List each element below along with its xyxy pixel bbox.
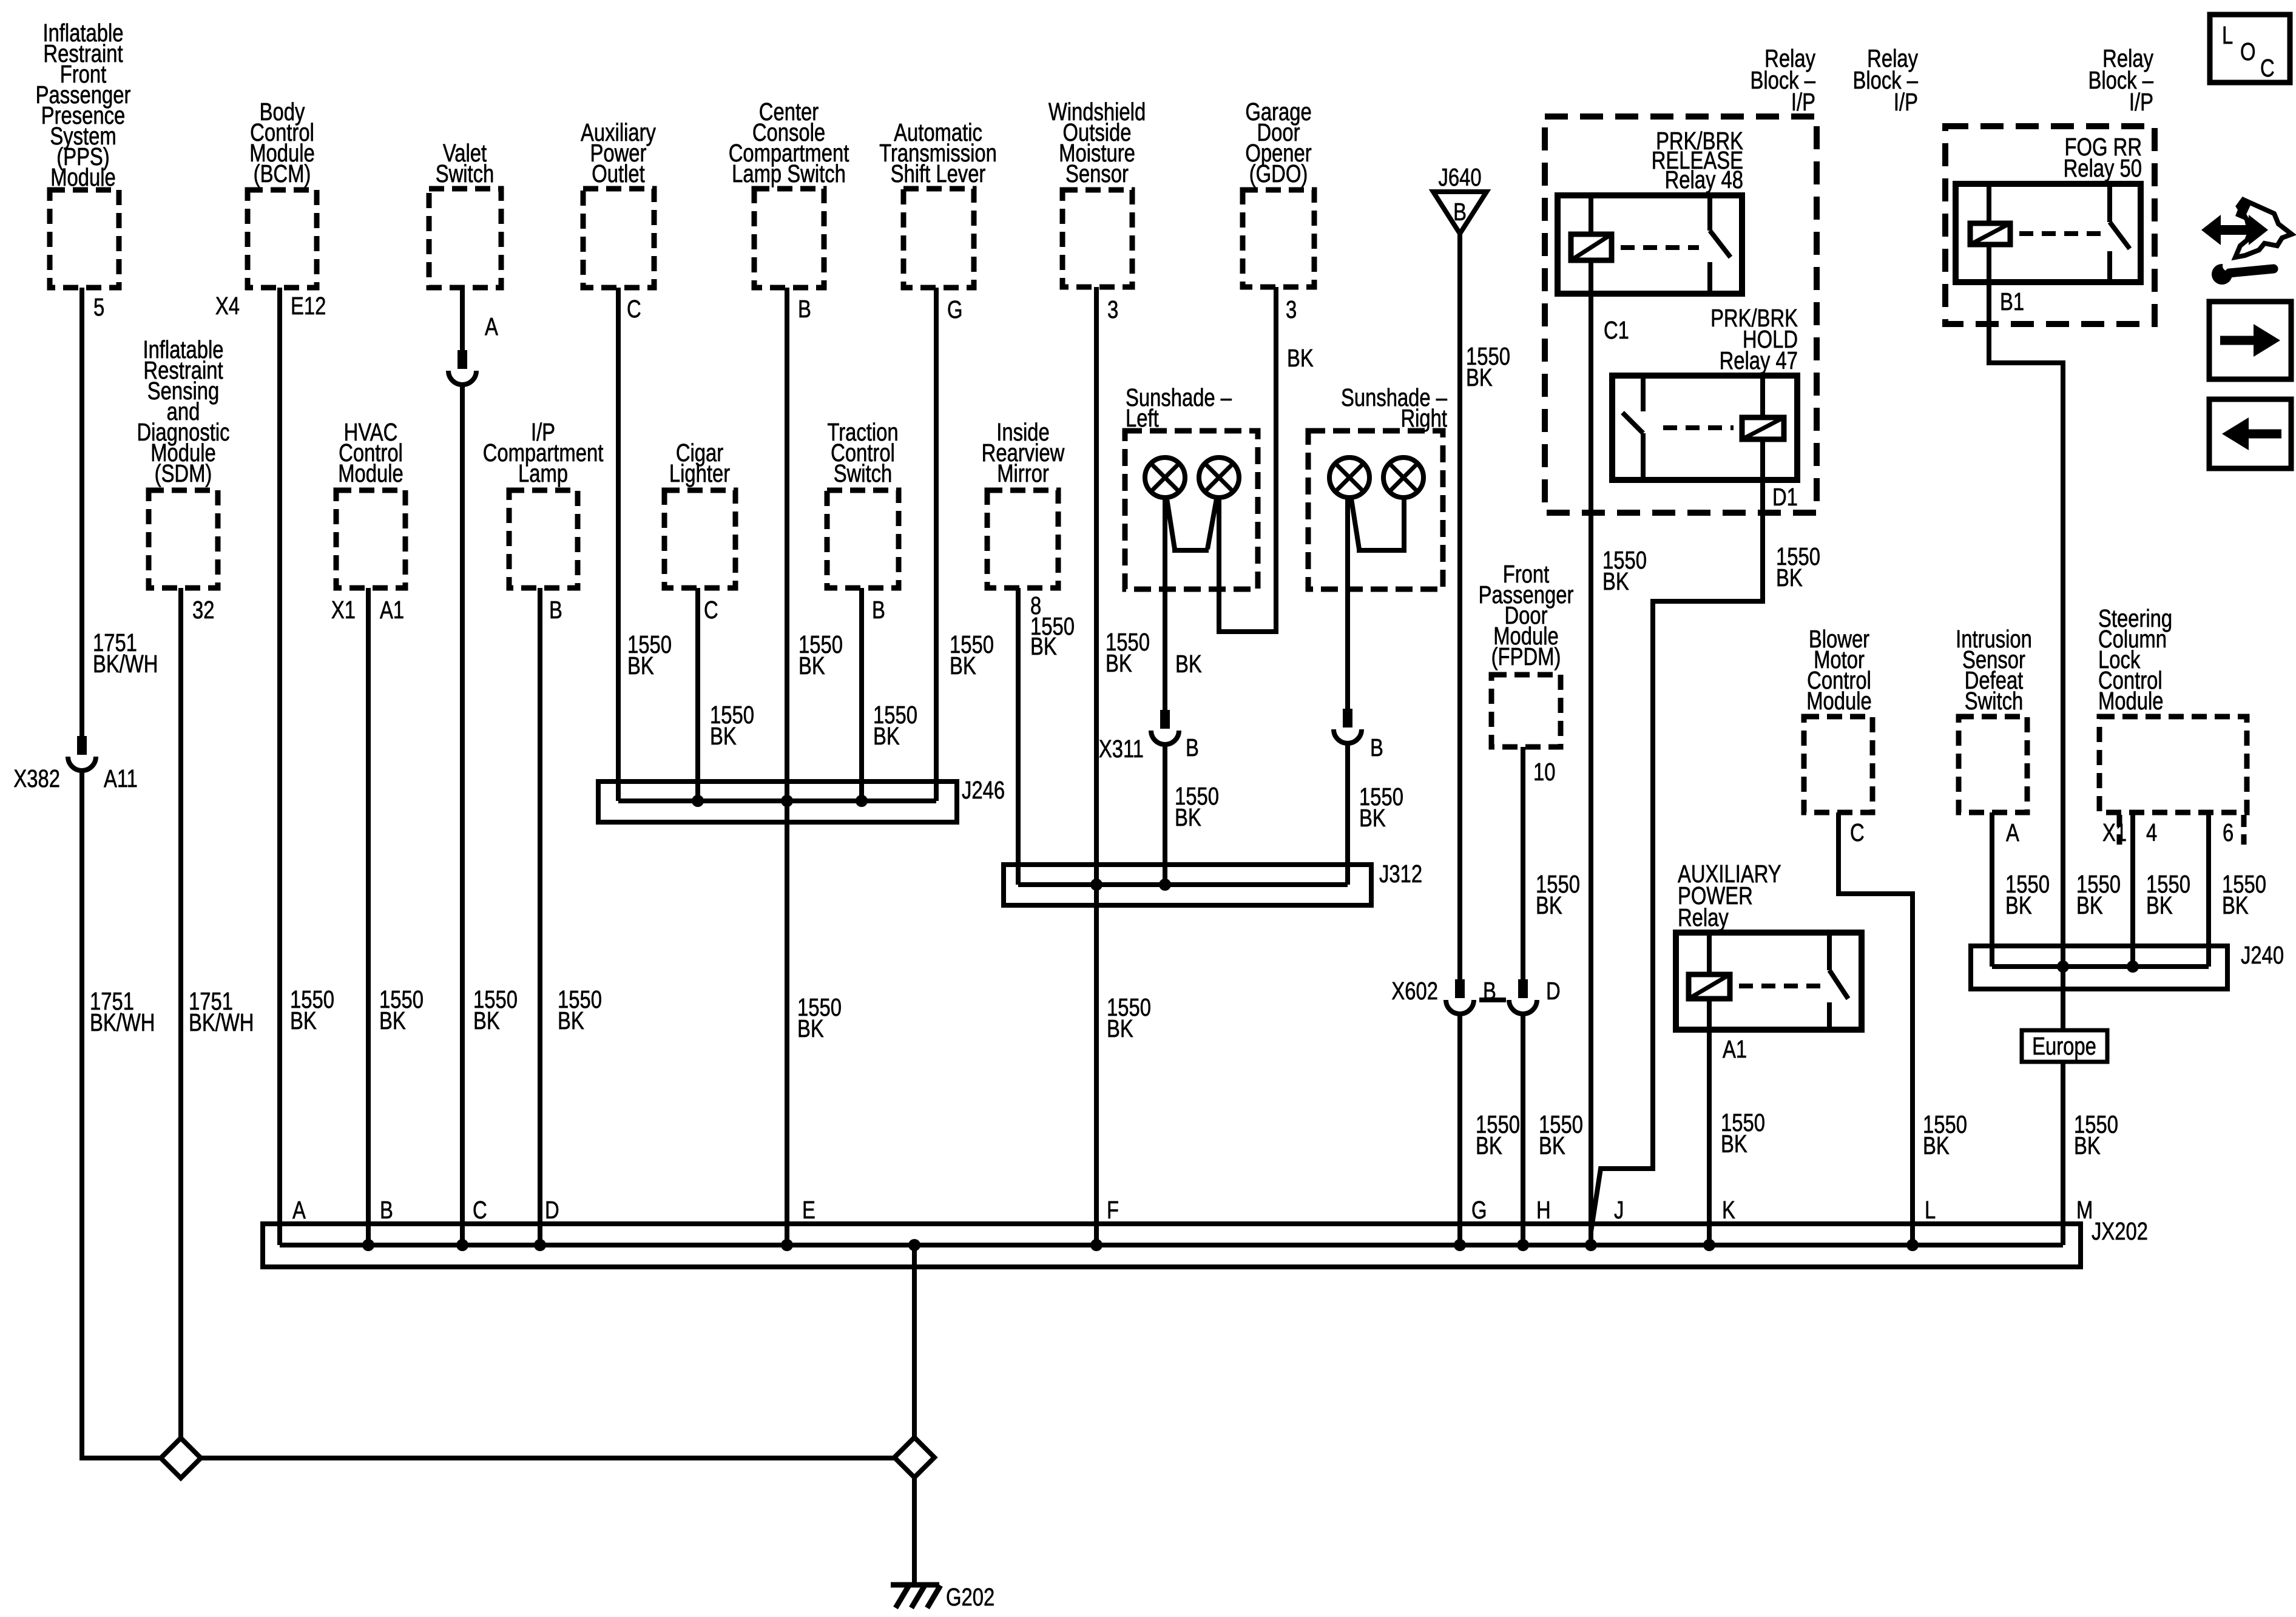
svg-text:3: 3 <box>1286 295 1297 323</box>
component Cigar Lighter (dashed box) <box>664 490 735 588</box>
pin label A11 (X382) <box>104 764 138 792</box>
wire PPS pin 5 down to X382 <box>79 288 84 736</box>
svg-text:BK: BK <box>1539 1131 1565 1159</box>
svg-text:Switch: Switch <box>834 459 893 487</box>
pin label A (Valet Switch) <box>485 312 498 340</box>
connector X602 mating dash link <box>1479 998 1506 1002</box>
svg-text:BK: BK <box>1923 1131 1950 1159</box>
svg-text:3: 3 <box>1107 295 1118 323</box>
svg-text:BK: BK <box>2076 891 2103 919</box>
pin label H (JX202) <box>1536 1195 1551 1223</box>
svg-text:X311: X311 <box>1099 734 1144 762</box>
pin label A1 (AUXILIARY POWER Relay) <box>1723 1035 1747 1062</box>
wire J640 B down to X602 B <box>1457 234 1462 979</box>
icon back arrow box <box>2209 399 2291 468</box>
pin label B (X311 left) <box>1186 733 1199 761</box>
wire label 1550 BK (valet wire) <box>473 985 518 1034</box>
splice diamond (SDM junction) <box>161 1438 201 1478</box>
wire Center Console Lamp Switch B down through J246 to JX202 pin E <box>785 288 789 1245</box>
svg-text:D1: D1 <box>1772 482 1798 510</box>
wire X602 B down to JX202 pin G <box>1457 1013 1462 1245</box>
relay AUXILIARY POWER Relay label <box>1678 859 1781 931</box>
wire Blower Motor C jog to JX202 pin L <box>1838 812 1913 1245</box>
wire label 1550 BK (windshield wire upper) <box>1106 627 1150 677</box>
option box Europe <box>2022 1030 2107 1062</box>
svg-text:BK: BK <box>1287 343 1314 371</box>
wire label 1550 BK (center console wire upper) <box>799 630 843 679</box>
component Inside Rearview Mirror label <box>982 417 1065 487</box>
wire label 1550 BK (below X311 right) <box>1359 782 1403 831</box>
lamp L1 (Sunshade Right) <box>1329 457 1369 498</box>
svg-text:J240: J240 <box>2241 940 2284 968</box>
svg-text:BK: BK <box>1476 1131 1502 1159</box>
wire label 1751 BK/WH (PPS lower) <box>90 987 155 1036</box>
wire relay 48 C1 down to JX202 pin J <box>1589 294 1593 1245</box>
svg-text:K: K <box>1722 1195 1735 1223</box>
component Valet Switch (dashed box) <box>429 189 501 288</box>
svg-text:I/P: I/P <box>2129 87 2153 115</box>
wire label 1550 BK (intrusion wire) <box>2005 869 2050 919</box>
pin label D (JX202) <box>545 1195 559 1223</box>
svg-text:BK/WH: BK/WH <box>90 1008 155 1036</box>
wire X311 left down to J312 <box>1163 744 1167 885</box>
svg-text:X382: X382 <box>13 764 60 792</box>
svg-text:Sensor: Sensor <box>1065 159 1129 187</box>
wire label BK (GDO wire) <box>1287 343 1314 371</box>
relay block I/P label 1 <box>1750 44 1815 115</box>
svg-text:5: 5 <box>93 292 104 320</box>
pin label C1 (relay 48) <box>1604 316 1629 343</box>
component Windshield Outside Moisture Sensor label <box>1048 97 1146 187</box>
wire Steering Column Lock pin 4 down to J240 <box>2130 812 2135 967</box>
svg-text:Relay: Relay <box>1678 903 1729 931</box>
pin label A (JX202) <box>292 1195 306 1223</box>
svg-text:6: 6 <box>2223 818 2234 846</box>
svg-text:Relay 50: Relay 50 <box>2064 154 2142 181</box>
node J640 label <box>1438 163 1481 191</box>
lamp L2 (Sunshade Right) <box>1383 457 1423 498</box>
component GDO (dashed box) <box>1243 190 1314 287</box>
junction label J240 <box>2241 940 2284 968</box>
component Intrusion Sensor Defeat Switch (dashed box) <box>1959 717 2027 812</box>
component Sunshade Left (dashed box) <box>1125 431 1258 589</box>
component Steering Column Lock Control Module (dashed box) <box>2099 717 2247 845</box>
pin label 32 (SDM) <box>192 595 214 623</box>
pin label B (X602) <box>1483 976 1496 1004</box>
svg-text:G: G <box>947 295 963 323</box>
wire label 1550 BK (D1 wire) <box>1776 542 1820 591</box>
svg-text:BK: BK <box>1602 567 1629 595</box>
pin label 10 (FPDM) <box>1533 757 1555 785</box>
junction label J312 <box>1379 859 1422 887</box>
svg-text:F: F <box>1107 1195 1119 1223</box>
pin label C (Auxiliary Power Outlet) <box>627 294 641 322</box>
svg-text:Module: Module <box>338 459 403 487</box>
wire splice line to diamond splices <box>201 1456 894 1460</box>
connector label X382 <box>13 764 60 792</box>
wire label 1550 BK (center console wire lower) <box>797 993 842 1042</box>
svg-text:BK: BK <box>1359 803 1386 831</box>
wire Windshield Moisture Sensor 3 down through J312 to JX202 pin F <box>1094 287 1099 1245</box>
svg-text:JX202: JX202 <box>2092 1217 2148 1244</box>
wire label 1550 BK (aux outlet wire) <box>627 630 672 679</box>
relay U50 FOG RR Relay 50 <box>1956 184 2141 282</box>
wire label 1550 BK (I/P lamp wire) <box>558 985 602 1034</box>
svg-text:BK: BK <box>1721 1129 1747 1157</box>
wire label 1550 BK (M wire) <box>2074 1110 2118 1159</box>
svg-text:A: A <box>2006 818 2019 846</box>
svg-text:X4: X4 <box>215 291 240 319</box>
svg-text:J640: J640 <box>1438 163 1481 191</box>
svg-text:BK: BK <box>2146 891 2173 919</box>
component Intrusion Sensor Defeat Switch label <box>1956 624 2032 714</box>
component Center Console Compartment Lamp Switch label <box>729 97 849 187</box>
wire label 1550 BK (HVAC wire) <box>379 985 424 1034</box>
pin label B (X311 right) <box>1370 733 1383 761</box>
pin label B (Traction Control Switch) <box>872 595 885 623</box>
pin label X1 (Steering Column Lock Control Module) <box>2102 818 2127 846</box>
wire label 1550 BK (cigar lighter wire) <box>710 700 754 749</box>
component Traction Control Switch (dashed box) <box>827 490 899 588</box>
pin label X1 (HVAC) <box>331 595 356 623</box>
svg-text:C1: C1 <box>1604 316 1629 343</box>
wire Automatic Transmission Shift Lever G down to J246 <box>934 288 939 801</box>
pin label B (JX202) <box>380 1195 393 1223</box>
svg-text:B: B <box>549 595 562 623</box>
svg-text:X602: X602 <box>1391 976 1438 1004</box>
wire X311 right down to J312 <box>1345 743 1350 885</box>
svg-text:(GDO): (GDO) <box>1249 159 1308 187</box>
connector X382 inline <box>68 736 96 771</box>
wire Intrusion Sensor A down to J240 <box>1990 812 1994 967</box>
svg-text:Lamp: Lamp <box>518 459 568 487</box>
relay U48 PRK/BRK RELEASE Relay 48 <box>1558 195 1742 294</box>
component I/P Compartment Lamp (dashed box) <box>509 490 578 588</box>
svg-text:BK: BK <box>2074 1131 2101 1159</box>
wire label 1550 BK (mirror wire) <box>1030 612 1075 660</box>
svg-text:BK: BK <box>290 1006 317 1034</box>
pin label 5 (PPS) <box>93 292 104 320</box>
svg-text:D: D <box>545 1195 559 1223</box>
wire Sunshade Left lamp2 to GDO wire jog <box>1219 499 1276 632</box>
wire Sunshade Right lamp1 down to X311 right <box>1345 498 1350 709</box>
svg-text:32: 32 <box>192 595 214 623</box>
component Center Console Compartment Lamp Switch (dashed box) <box>754 189 824 288</box>
wire Inside Rearview Mirror 8 down to J312 <box>1016 588 1021 885</box>
svg-text:J312: J312 <box>1379 859 1422 887</box>
svg-text:B: B <box>1186 733 1199 761</box>
component SDM (dashed box) <box>149 490 218 588</box>
junction bus J246 <box>598 781 957 822</box>
svg-text:(SDM): (SDM) <box>155 459 212 487</box>
pin label J (JX202) <box>1614 1195 1624 1223</box>
relay 48 PRK/BRK RELEASE label <box>1652 126 1743 193</box>
component PPS Module (dashed box) <box>50 190 119 288</box>
wire label 1550 BK (FPDM wire upper) <box>1536 869 1580 919</box>
pin label G (Automatic Transmission Shift Lever) <box>947 295 963 323</box>
wire internal Sunshade Right lamp bar <box>1351 499 1405 553</box>
svg-text:A1: A1 <box>1723 1035 1747 1062</box>
pin label B (I/P Compartment Lamp) <box>549 595 562 623</box>
component Automatic Transmission Shift Lever label <box>879 118 997 187</box>
pin label D1 (relay 47) <box>1772 482 1798 510</box>
component Garage Door Opener label <box>1245 97 1311 187</box>
connector label X602 <box>1391 976 1438 1004</box>
pin label 4 (Steering Column Lock Control Module) <box>2146 818 2157 846</box>
component FPDM (dashed box) <box>1491 675 1561 747</box>
svg-text:(FPDM): (FPDM) <box>1491 642 1561 670</box>
splice diamond (ground junction) <box>894 1437 934 1477</box>
svg-text:B1: B1 <box>2000 287 2024 315</box>
wire HVAC A1 down to JX202 pin B <box>366 588 371 1245</box>
svg-text:BK: BK <box>2005 891 2032 919</box>
svg-text:X1: X1 <box>2102 818 2127 846</box>
pin label 8 (Inside Rearview Mirror) <box>1030 591 1041 619</box>
svg-text:Switch: Switch <box>1965 686 2024 714</box>
wire Valet connector down to JX202 pin C <box>460 385 465 1245</box>
wire X602 D down to JX202 pin H <box>1521 1013 1525 1245</box>
svg-text:BK: BK <box>1175 649 1202 677</box>
wire label 1550 BK (K wire) <box>1721 1108 1765 1157</box>
junction bus J312 <box>1004 865 1371 905</box>
svg-text:X1: X1 <box>331 595 356 623</box>
pin label M (JX202) <box>2076 1195 2093 1223</box>
wire GDO pin 3 down to sunshade jog <box>1274 287 1278 634</box>
component Sunshade Right label <box>1341 383 1448 431</box>
wire label BK (sunshade left wire) <box>1175 649 1202 677</box>
wire label 1550 BK (H wire) <box>1539 1110 1583 1159</box>
svg-text:C: C <box>704 595 718 623</box>
svg-text:BK: BK <box>873 721 900 749</box>
svg-text:L: L <box>2222 21 2233 49</box>
component Cigar Lighter label <box>669 438 730 487</box>
wire label 1550 BK (steering pin 4 wire) <box>2146 869 2190 919</box>
svg-text:10: 10 <box>1533 757 1555 785</box>
svg-text:(BCM): (BCM) <box>254 159 311 187</box>
svg-text:Right: Right <box>1400 403 1447 431</box>
svg-text:C: C <box>1850 818 1865 846</box>
svg-text:B: B <box>1453 197 1467 225</box>
svg-text:A11: A11 <box>104 764 138 792</box>
junction label J246 <box>962 775 1005 803</box>
svg-text:H: H <box>1536 1195 1551 1223</box>
svg-text:D: D <box>1546 976 1561 1004</box>
svg-text:Module: Module <box>50 163 116 191</box>
icon LOC box <box>2210 15 2290 83</box>
svg-text:BK: BK <box>2222 891 2249 919</box>
svg-text:B: B <box>798 294 811 322</box>
wire internal Sunshade Left lamp bar <box>1167 499 1217 550</box>
pin label K (JX202) <box>1722 1195 1735 1223</box>
component PPS Module label <box>36 18 131 191</box>
icon adjust arrow with wrench <box>2201 200 2292 285</box>
wire label 1550 BK (steering pin 6 wire) <box>2222 869 2266 919</box>
svg-text:BK/WH: BK/WH <box>189 1008 254 1036</box>
component Valet Switch label <box>436 138 495 187</box>
component Traction Control Switch label <box>827 417 898 487</box>
wire label 1550 BK (BCM wire) <box>290 985 334 1034</box>
component HVAC Control Module label <box>338 417 403 487</box>
svg-text:J: J <box>1614 1195 1624 1223</box>
pin label X4 (BCM) <box>215 291 240 319</box>
component Auxiliary Power Outlet (dashed box) <box>583 189 654 288</box>
component Blower Motor Control Module label <box>1806 624 1872 714</box>
pin label E12 (BCM) <box>291 291 326 319</box>
connector X311 inline (left) <box>1151 710 1179 744</box>
svg-text:I/P: I/P <box>1791 87 1815 115</box>
svg-text:BK: BK <box>950 651 976 679</box>
lamp L1 (Sunshade Left) <box>1145 457 1185 498</box>
svg-text:BK: BK <box>799 651 825 679</box>
pin label C (JX202) <box>473 1195 487 1223</box>
svg-text:Lighter: Lighter <box>669 459 730 487</box>
component Auxiliary Power Outlet label <box>581 118 656 187</box>
connector X602 inline (D) <box>1509 979 1537 1014</box>
wire relay 47 D1 jog down to join J wire <box>1591 480 1763 1232</box>
svg-text:A: A <box>485 312 498 340</box>
pin label C (Cigar Lighter) <box>704 595 718 623</box>
wire SDM pin 32 down to splice diamond <box>178 588 183 1439</box>
wire Europe box down to JX202 pin M <box>2061 1062 2065 1245</box>
svg-text:B: B <box>872 595 885 623</box>
ground G202 <box>891 1585 940 1608</box>
component Sunshade Right (dashed box) <box>1308 431 1443 589</box>
svg-text:BK: BK <box>473 1006 500 1034</box>
connector X311 inline (right) <box>1334 709 1362 743</box>
svg-text:BK: BK <box>797 1014 824 1042</box>
svg-text:Shift Lever: Shift Lever <box>891 159 986 187</box>
relay block - I/P (dashed box) <box>1545 116 1817 513</box>
wire AUX POWER relay A1 down to JX202 pin K <box>1707 1030 1712 1245</box>
svg-text:A1: A1 <box>380 595 404 623</box>
svg-text:BK: BK <box>379 1006 406 1034</box>
component SDM label <box>137 335 229 487</box>
svg-text:BK: BK <box>627 651 654 679</box>
wire label 1550 BK (G wire) <box>1476 1110 1520 1159</box>
svg-text:BK: BK <box>1536 891 1562 919</box>
relay U-AUX AUXILIARY POWER Relay <box>1676 933 1862 1030</box>
svg-text:BK: BK <box>1030 632 1057 660</box>
wire Sunshade Left lamp1 down to X311 <box>1163 498 1167 710</box>
node J640 (triangle terminal B) <box>1433 192 1487 234</box>
relay 47 PRK/BRK HOLD label <box>1710 303 1798 374</box>
pin label C (Blower Motor Control Module) <box>1850 818 1865 846</box>
wire label 1751 BK/WH (PPS upper) <box>93 628 158 677</box>
svg-text:BK: BK <box>1175 803 1201 831</box>
svg-text:L: L <box>1925 1195 1936 1223</box>
svg-text:BK: BK <box>1106 649 1132 677</box>
svg-text:C: C <box>2260 53 2275 81</box>
pin label A1 (HVAC) <box>380 595 404 623</box>
pin label B1 (relay 50) <box>2000 287 2024 315</box>
connector A inline (valet) <box>448 350 476 385</box>
svg-text:BK: BK <box>1776 563 1803 591</box>
component Body Control Module label <box>249 97 315 187</box>
relay block I/P label 3 <box>2088 44 2153 115</box>
svg-text:G202: G202 <box>946 1582 994 1610</box>
connector X602 inline (B) <box>1446 979 1474 1014</box>
wire label 1550 BK (J640 wire) <box>1466 342 1510 391</box>
wire relay 50 B1 jog down through J240 to Europe <box>1989 282 2063 1030</box>
pin label B (Center Console Compartment Lamp Switch) <box>798 294 811 322</box>
pin label A (Intrusion Sensor Defeat Switch) <box>2006 818 2019 846</box>
component Automatic Transmission Shift Lever (dashed box) <box>903 189 974 288</box>
component Sunshade Left label <box>1126 383 1232 431</box>
svg-text:Relay 47: Relay 47 <box>1720 346 1798 374</box>
wire label 1550 BK (below X311 left) <box>1175 781 1219 831</box>
pin label G (JX202) <box>1471 1195 1487 1223</box>
svg-text:Switch: Switch <box>436 159 495 187</box>
svg-text:I/P: I/P <box>1894 87 1918 115</box>
relay block I/P label 2 <box>1852 44 1918 115</box>
junction bus J240 <box>1971 946 2227 989</box>
wire FPDM pin 10 down to X602 D <box>1521 747 1525 979</box>
ground label G202 <box>946 1582 994 1610</box>
component Blower Motor Control Module (dashed box) <box>1804 717 1872 812</box>
svg-text:B: B <box>380 1195 393 1223</box>
svg-text:M: M <box>2076 1195 2093 1223</box>
component BCM (dashed box) <box>248 190 317 288</box>
svg-text:Europe: Europe <box>2032 1031 2096 1059</box>
wire Cigar Lighter C down to J246 <box>695 588 700 801</box>
wire label 1751 BK/WH (SDM) <box>189 987 254 1036</box>
svg-text:G: G <box>1471 1195 1487 1223</box>
svg-text:Left: Left <box>1126 403 1159 431</box>
junction bus JX202 <box>263 1224 2081 1267</box>
svg-text:BK: BK <box>1466 363 1493 391</box>
wire PPS X382 down to splice corner <box>82 770 161 1458</box>
wire label 1550 BK (shift lever wire) <box>950 630 994 679</box>
svg-text:E: E <box>802 1195 815 1223</box>
component Steering Column Lock Control Module label <box>2098 604 2172 714</box>
pin label F (JX202) <box>1107 1195 1119 1223</box>
pin label E (JX202) <box>802 1195 815 1223</box>
svg-text:C: C <box>627 294 641 322</box>
svg-text:Outlet: Outlet <box>592 159 645 187</box>
svg-text:J246: J246 <box>962 775 1005 803</box>
wire label 1550 BK (C1 wire) <box>1602 545 1647 595</box>
wire splice diamond 2 down to ground <box>912 1477 917 1585</box>
component FPDM label <box>1479 559 1574 670</box>
wire Auxiliary Power Outlet C down to J246 <box>616 288 621 801</box>
svg-text:Module: Module <box>1806 686 1872 714</box>
relay U47 PRK/BRK HOLD Relay 47 <box>1612 376 1797 480</box>
junction label JX202 <box>2092 1217 2148 1244</box>
svg-text:E12: E12 <box>291 291 326 319</box>
component Windshield Outside Moisture Sensor (dashed box) <box>1062 190 1132 287</box>
svg-text:4: 4 <box>2146 818 2157 846</box>
relay block FOG RR (dashed box) <box>1945 126 2155 324</box>
svg-text:BK: BK <box>1107 1014 1133 1042</box>
wire label 1550 BK (B1/M wire above J240) <box>2076 869 2121 919</box>
lamp L2 (Sunshade Left) <box>1199 457 1239 498</box>
component I/P Compartment Lamp label <box>483 417 604 487</box>
svg-text:B: B <box>1370 733 1383 761</box>
svg-text:BK: BK <box>710 721 737 749</box>
pin label 3 (Windshield Outside Moisture Sensor) <box>1107 295 1118 323</box>
wire BCM E12 down to JX202 pin A <box>277 288 282 1245</box>
svg-text:BK/WH: BK/WH <box>93 649 158 677</box>
wire Steering Column Lock pin 6 down to J240 <box>2206 812 2211 967</box>
wire I/P Compartment Lamp B down to JX202 pin D <box>538 588 542 1245</box>
svg-text:A: A <box>292 1195 306 1223</box>
svg-text:Module: Module <box>2098 686 2164 714</box>
svg-text:O: O <box>2240 37 2256 65</box>
svg-text:C: C <box>473 1195 487 1223</box>
svg-text:Relay 48: Relay 48 <box>1665 165 1743 193</box>
icon forward arrow box <box>2209 302 2291 379</box>
wire label 1550 BK (windshield wire lower) <box>1107 993 1151 1042</box>
